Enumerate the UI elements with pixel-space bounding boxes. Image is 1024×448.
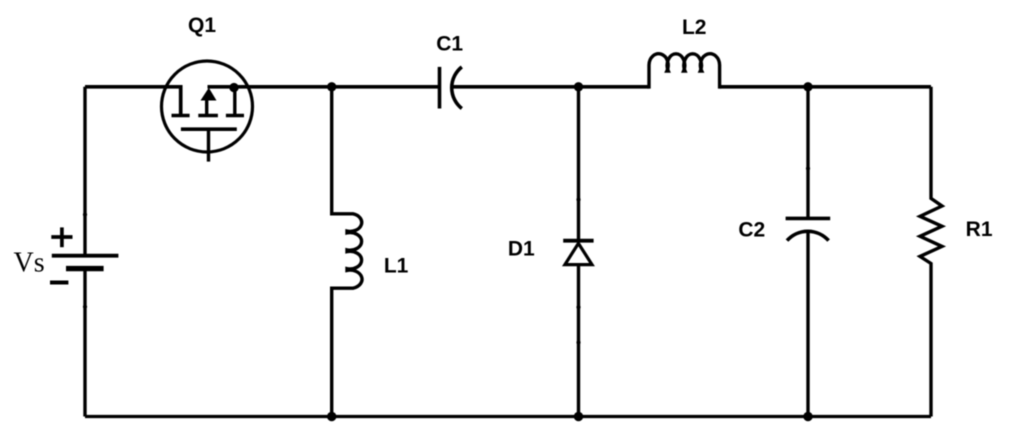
svg-text:C1: C1: [436, 32, 463, 55]
svg-text:L2: L2: [682, 16, 707, 39]
svg-text:C2: C2: [738, 218, 765, 241]
svg-text:R1: R1: [966, 218, 993, 241]
svg-text:Q1: Q1: [188, 14, 216, 37]
svg-text:D1: D1: [508, 237, 535, 260]
svg-text:L1: L1: [384, 254, 409, 277]
svg-text:Vs: Vs: [14, 248, 45, 279]
